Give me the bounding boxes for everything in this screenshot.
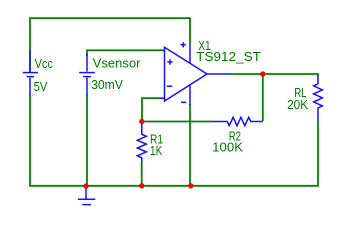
svg-text:1K: 1K bbox=[150, 143, 163, 158]
op-amp X1 output pin bbox=[207, 73, 231, 75]
wire op-amp V- pin down to ground rail bbox=[189, 104, 191, 186]
junction R1 bottom on rail bbox=[139, 183, 144, 188]
svg-text:Vsensor: Vsensor bbox=[93, 56, 141, 71]
op-amp X1 V- minus sign bbox=[181, 101, 186, 103]
op-amp X1 triangle body bbox=[165, 47, 208, 101]
svg-text:Vcc: Vcc bbox=[35, 56, 54, 71]
svg-text:TS912_ST: TS912_ST bbox=[196, 49, 261, 64]
wire Vcc bottom, bottom ground rail, RL bottom bbox=[30, 94, 318, 186]
resistor R1 bbox=[137, 122, 146, 163]
junction op-amp V- on rail bbox=[188, 183, 193, 188]
resistor RL bbox=[314, 75, 323, 121]
wire Vsensor bottom to ground rail bbox=[86, 94, 88, 186]
junction output node bbox=[260, 71, 265, 76]
battery V2 Vsensor bbox=[79, 54, 95, 95]
op-amp X1 V+ plus sign bbox=[181, 42, 186, 47]
op-amp X1 plus input sign bbox=[167, 59, 172, 64]
wire Vsensor top to op-amp noninverting input bbox=[87, 50, 164, 56]
op-amp X1 V+ power pin bbox=[189, 44, 191, 64]
wire R2 right lead up to output node bbox=[262, 74, 264, 121]
battery V1 Vcc bbox=[23, 50, 38, 95]
wire top rail from Vcc to op-amp V+ bbox=[30, 18, 190, 72]
op-amp X1 V- power pin bbox=[189, 85, 191, 105]
resistor R2 bbox=[211, 117, 263, 125]
svg-text:100K: 100K bbox=[212, 140, 243, 155]
ground bbox=[78, 187, 96, 205]
op-amp X1 minus input sign bbox=[167, 85, 173, 87]
junction ground node on rail bbox=[83, 183, 88, 188]
op-amp X1 inverting input pin stub bbox=[159, 97, 165, 99]
svg-text:30mV: 30mV bbox=[91, 77, 123, 92]
svg-text:5V: 5V bbox=[34, 79, 48, 94]
wire inverting input to node A and feedback to R2 bbox=[142, 98, 211, 121]
junction feedback node A bbox=[139, 119, 144, 124]
wire op-amp output to RL top bbox=[231, 74, 319, 76]
wire R1 bottom to rail bbox=[141, 162, 143, 186]
svg-text:20K: 20K bbox=[287, 97, 308, 112]
